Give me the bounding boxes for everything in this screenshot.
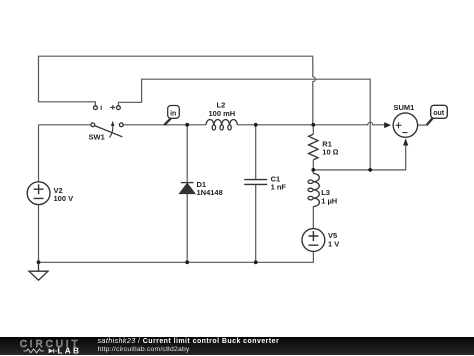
wire: C1 branch: [255, 125, 257, 262]
junction node: C1 top: [254, 123, 258, 127]
junction node: R1 top: [311, 123, 315, 127]
diode D1: [180, 183, 195, 194]
svg-text:LAB: LAB: [58, 345, 82, 355]
wire: SUM1 output to out flag: [418, 124, 427, 126]
wire: R1 stubs: [312, 125, 314, 170]
SW1 minus control label: [100, 106, 102, 110]
CircuitLab logo: [0, 337, 95, 356]
ground: [29, 262, 48, 280]
svg-text:100 mH: 100 mH: [209, 109, 236, 118]
svg-text:1N4148: 1N4148: [197, 188, 223, 197]
junction node: D1 bottom: [185, 260, 189, 264]
svg-text:out: out: [433, 110, 445, 117]
junction node: C1 bottom: [254, 260, 258, 264]
resistor R1: [309, 134, 318, 160]
wire: main rail L2 to SUM1 arrow, hop over control wire: [237, 122, 386, 125]
wire: SW1 minus-control loop to top of R1: [39, 56, 316, 123]
inductor L3: [308, 174, 319, 207]
svg-text:10 Ω: 10 Ω: [322, 148, 338, 157]
wire: V2 branch lower to ground node: [38, 205, 40, 263]
wire: bottom ground rail: [39, 251, 314, 262]
inductor L2: [206, 119, 237, 130]
svg-text:SW1: SW1: [89, 132, 105, 141]
junction node: D1 top: [185, 123, 189, 127]
junction node: V2/ground: [37, 260, 41, 264]
switch SW1: [91, 106, 123, 138]
wire: SW1 plus-control to bottom of R1: [118, 79, 370, 170]
capacitor C1: [244, 180, 267, 185]
wire: V2 branch upper: [38, 125, 40, 182]
junction node: control wire to R1 bottom rail: [368, 168, 372, 172]
svg-text:SUM1: SUM1: [394, 103, 415, 112]
footer bar: [0, 337, 474, 355]
voltage source V2: [27, 182, 50, 205]
svg-text:100 V: 100 V: [54, 194, 74, 203]
voltage source V5: [302, 229, 325, 252]
wire: main rail left segment V2 top to SW1 left terminal: [39, 124, 92, 126]
arrow into SUM1 plus input: [384, 122, 391, 128]
out flag: [427, 118, 433, 125]
op-amp summer SUM1: [393, 113, 417, 137]
wire: L3 stubs: [312, 170, 314, 229]
wire: D1 branch: [186, 125, 188, 262]
junction node: R1 bottom: [311, 168, 315, 172]
wire: main rail SW1 right terminal to L2: [123, 124, 206, 126]
wire: R1 bottom to SUM1 minus input: [313, 146, 405, 170]
arrow into SUM1 minus input: [403, 138, 408, 145]
svg-text:L2: L2: [217, 101, 226, 110]
in flag: [164, 118, 171, 125]
svg-text:1 µH: 1 µH: [321, 196, 337, 205]
svg-text:in: in: [170, 110, 176, 117]
svg-text:1 V: 1 V: [328, 240, 339, 249]
SW1 plus control label: [110, 105, 115, 110]
svg-text:1 nF: 1 nF: [271, 183, 287, 192]
